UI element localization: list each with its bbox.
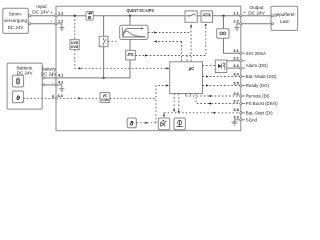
LED feed dashed (163, 113, 165, 115)
svg-text:Ready (DO): Ready (DO) (246, 83, 270, 88)
svg-text:DC 24V: DC 24V (41, 71, 56, 76)
arrow battery fuse status (145, 54, 148, 56)
node: rail junction to charger (129, 15, 131, 17)
svg-text:3.9: 3.9 (233, 116, 238, 120)
battery fuse status dashed (135, 55, 206, 57)
svg-text:versorgung: versorgung (4, 18, 27, 23)
charger control riser (181, 42, 183, 62)
right terminals (233, 49, 239, 120)
svg-text:Bat.-Start (DI): Bat.-Start (DI) (246, 111, 273, 116)
uC bottom stubs (185, 94, 187, 97)
switch control dashed stub (108, 40, 117, 42)
temp sensor dashed to riser (136, 122, 156, 124)
battery + wire (42, 77, 56, 79)
wire rail down to charger (129, 16, 131, 25)
24V aux source box (217, 16, 229, 38)
input - wire (28, 23, 56, 25)
svg-text:1.2: 1.2 (58, 19, 63, 23)
battery switch feed wire (103, 16, 105, 37)
uC COM box (100, 93, 110, 103)
QUINT DC-UPS main block (56, 6, 241, 131)
output labels (243, 5, 266, 23)
input protection box on rail (86, 11, 93, 20)
ground at 4.2 (59, 85, 64, 92)
wire UVD to uC dashed (75, 50, 170, 69)
svg-text:2.2: 2.2 (233, 19, 238, 23)
config knob box (174, 118, 185, 130)
3.6 Remote dashed (186, 95, 241, 97)
svg-text:DC 24V: DC 24V (248, 11, 265, 16)
branch to uC top (186, 56, 188, 62)
output + wire (241, 15, 271, 17)
3.5 Ready dashed (203, 85, 241, 87)
3.8 Bat-Start dashed (164, 112, 241, 114)
battery temp dashed wire (23, 97, 56, 99)
3.7 PS Boost dashed (196, 94, 241, 104)
COM box to riser dashed (110, 97, 156, 99)
switch A control dashed (190, 27, 192, 62)
battery - wire (42, 84, 56, 86)
arrow charger output (154, 31, 157, 33)
buffered load box (271, 6, 298, 30)
uC to relay dashed (203, 65, 216, 67)
svg-text:3.5: 3.5 (233, 81, 238, 85)
arrow on UVD line into uC (166, 67, 169, 69)
svg-text:3.8: 3.8 (233, 108, 238, 112)
electronic fuse box B output (201, 11, 213, 22)
battery box (7, 63, 42, 109)
output - wire (241, 23, 271, 25)
node: rail junction to UVD (74, 15, 76, 17)
svg-text:+: + (51, 73, 54, 78)
3.4 Bat-Mode dashed (203, 76, 241, 78)
arrow down from fuse B (205, 24, 207, 27)
UVD/OVD monitor box (70, 16, 79, 50)
svg-text:3.4: 3.4 (233, 72, 239, 76)
supply terminal circles (29, 15, 31, 17)
terminal stubs outside right edge (242, 53, 245, 120)
svg-text:Strom-: Strom- (9, 11, 23, 16)
svg-text:DC 24V: DC 24V (17, 70, 33, 75)
temperature sensor box internal (127, 118, 136, 128)
electronic fuse box battery branch (126, 50, 136, 60)
node: junction on 4.1 wire (102, 77, 104, 79)
battery charge characteristic box (120, 25, 148, 39)
relay box alarm (215, 60, 227, 73)
ground at 3.9 SGnd (232, 120, 241, 125)
svg-text:PS Boost (DI/AI): PS Boost (DI/AI) (246, 101, 278, 106)
svg-text:1.1: 1.1 (58, 11, 63, 15)
input labels (32, 4, 53, 23)
uC to charger control dashed (153, 41, 182, 43)
svg-text:Last: Last (280, 19, 289, 24)
svg-text:QUINT DC-UPS: QUINT DC-UPS (126, 8, 154, 13)
power supply source box (3, 8, 29, 33)
wire fuse to 4.1 (56, 60, 130, 78)
svg-text:4.1: 4.1 (58, 74, 63, 78)
arrow on UVD line start (79, 67, 82, 69)
svg-text:3.1: 3.1 (233, 49, 238, 53)
battery labels (41, 66, 56, 98)
svg-text:ϑ: ϑ (130, 121, 134, 128)
svg-text:Output: Output (249, 5, 264, 10)
svg-text:ϑ: ϑ (16, 95, 20, 102)
svg-text:OVD: OVD (71, 45, 79, 49)
electronic switch box A (185, 11, 197, 22)
svg-text:3.6: 3.6 (233, 92, 238, 96)
svg-text:Alarm (DO): Alarm (DO) (246, 63, 269, 68)
top rail from 1.1 to 2.1 (56, 15, 185, 17)
arrow up into switch A (190, 24, 192, 27)
relay contacts to 3.2 3.3 (227, 60, 241, 62)
charger output dashed to switch A (148, 32, 191, 34)
uC to LED dashed (173, 94, 175, 110)
knob to uC dashed (178, 94, 180, 113)
arrow uC to charger (154, 40, 157, 42)
arrow into uC left (166, 84, 169, 86)
svg-text:SGnd: SGnd (246, 118, 258, 123)
svg-text:gepufferte: gepufferte (274, 12, 295, 17)
wire charger to battery fuse (129, 40, 131, 51)
svg-text:24V 20mA: 24V 20mA (246, 51, 266, 56)
svg-text:Remote (DI): Remote (DI) (246, 94, 270, 99)
svg-text:3.3: 3.3 (233, 64, 238, 68)
svg-text:3.7: 3.7 (233, 99, 238, 103)
battery switch box (99, 36, 108, 46)
wire switch to battery + rail (103, 47, 105, 78)
svg-text:2.1: 2.1 (233, 11, 238, 15)
svg-text:Bat.-Mode (DO): Bat.-Mode (DO) (246, 74, 277, 79)
microcontroller uC box (170, 62, 203, 94)
fuse B status dashed down (205, 27, 207, 55)
svg-text:DC 24V: DC 24V (8, 25, 24, 30)
wire aux to 3.1 (224, 38, 241, 53)
battery temp sensor box (12, 91, 23, 103)
right signal labels (246, 51, 278, 123)
ground at 1.2 (56, 24, 64, 31)
svg-text:Input: Input (36, 4, 47, 9)
svg-text:4.3: 4.3 (58, 94, 63, 98)
svg-text:4.2: 4.2 (58, 81, 63, 85)
svg-text:COM: COM (101, 98, 109, 102)
terminal circles on block edges (55, 15, 242, 121)
arrow on 4.3 line (78, 97, 81, 99)
node: rail junction to 24V out (222, 15, 224, 17)
svg-text:DC 24V: DC 24V (32, 10, 49, 15)
svg-text:+: + (243, 10, 246, 15)
svg-text:3.2: 3.2 (233, 56, 238, 60)
temp sensor dashed 4.3 to COM box (56, 97, 100, 99)
riser to uC left dashed (156, 86, 170, 123)
ground at 2.2 (234, 24, 240, 31)
LED indicator box (158, 118, 169, 130)
wire 4.2 stub (56, 84, 62, 86)
svg-text:µC: µC (189, 66, 196, 71)
svg-text:+: + (50, 10, 53, 15)
input + wire (28, 15, 56, 17)
battery fuse box (12, 75, 23, 87)
